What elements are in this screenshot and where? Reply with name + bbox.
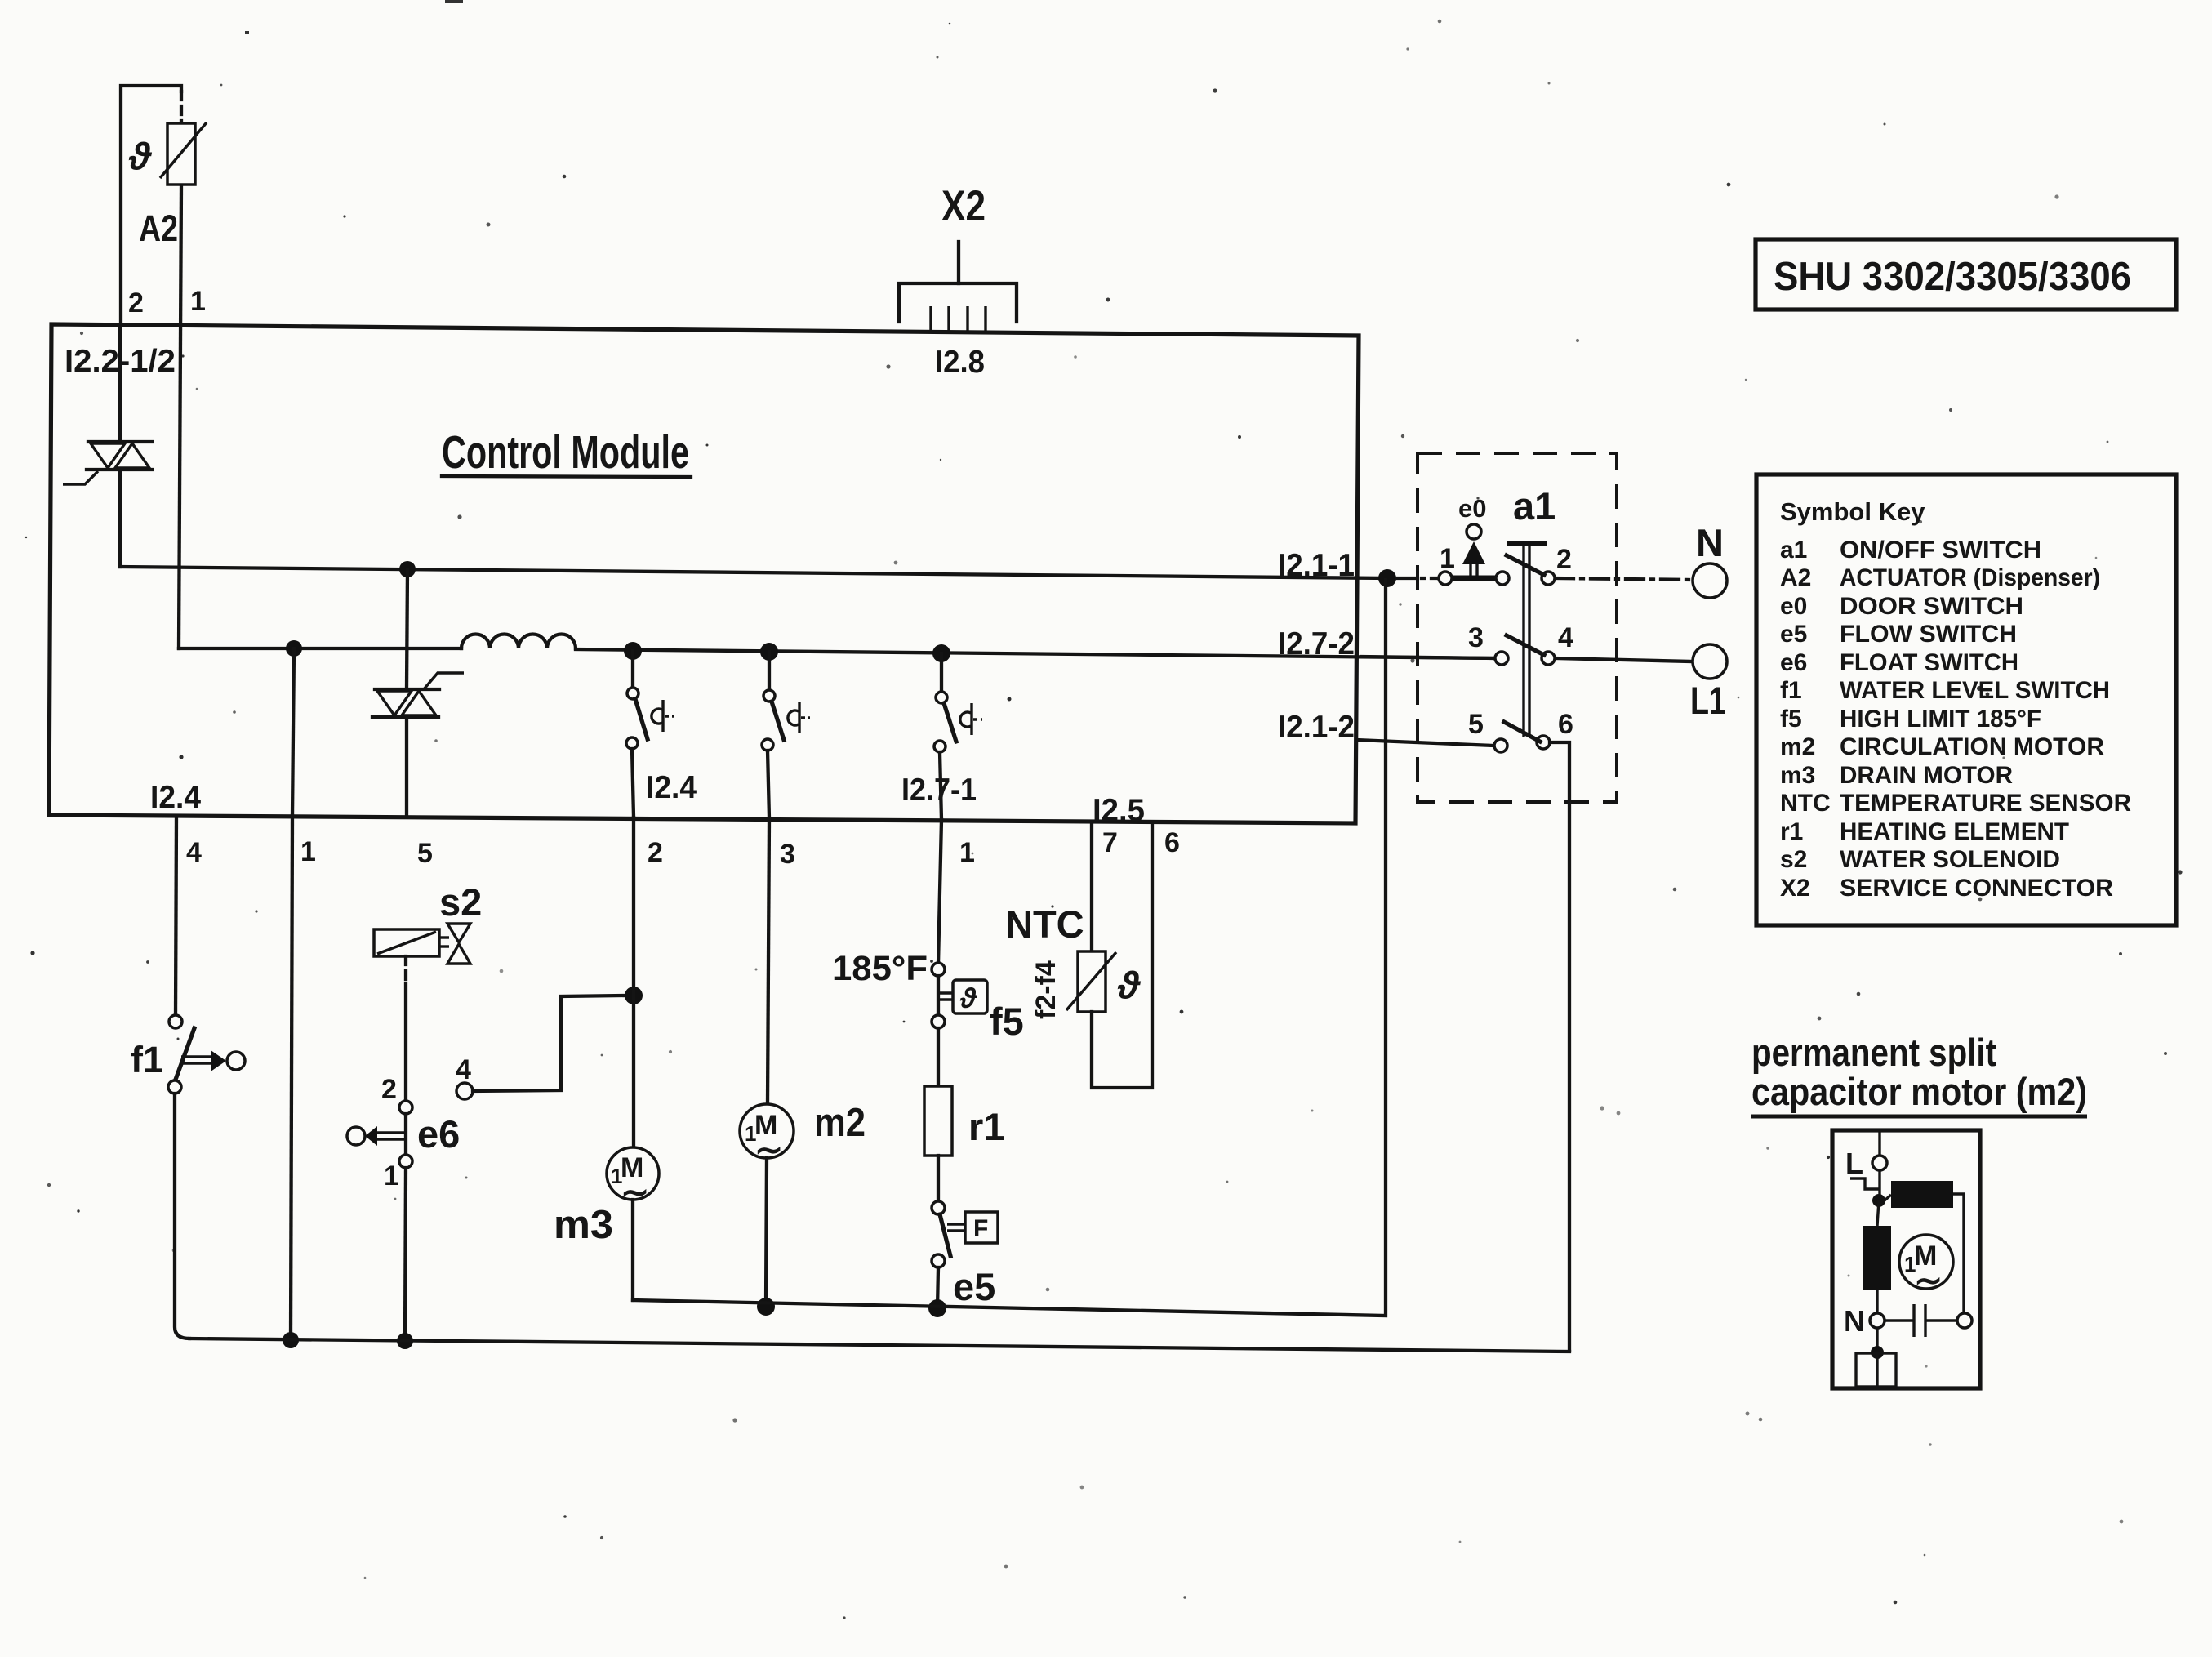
wire NTC loop: [1092, 823, 1152, 1088]
legend e0: [1780, 593, 2023, 620]
flow switch e5: [932, 1201, 998, 1267]
svg-text:e5: e5: [1780, 621, 1807, 648]
svg-text:ϑ: ϑ: [128, 135, 153, 177]
svg-text:I2.4: I2.4: [646, 770, 697, 805]
svg-text:2: 2: [128, 287, 144, 318]
float switch e6: [347, 1101, 412, 1168]
psc motor M: [1899, 1235, 1953, 1299]
svg-text:f1: f1: [131, 1039, 163, 1080]
svg-text:HIGH LIMIT 185°F: HIGH LIMIT 185°F: [1840, 706, 2041, 733]
svg-text:CIRCULATION MOTOR: CIRCULATION MOTOR: [1840, 733, 2104, 760]
svg-text:ON/OFF SWITCH: ON/OFF SWITCH: [1840, 537, 2041, 563]
svg-text:m3: m3: [554, 1203, 613, 1247]
psc N terminal: [1870, 1313, 1885, 1328]
svg-text:r1: r1: [968, 1105, 1004, 1148]
relay switch I2.7-1: [934, 653, 982, 820]
svg-text:ACTUATOR (Dispenser): ACTUATOR (Dispenser): [1840, 564, 2100, 591]
svg-text:X2: X2: [1780, 875, 1810, 902]
svg-text:FLOAT SWITCH: FLOAT SWITCH: [1840, 649, 2018, 676]
svg-text:e6: e6: [417, 1112, 460, 1156]
svg-text:e0: e0: [1458, 494, 1486, 523]
actuator A2 (dispenser) thermistor: [128, 122, 207, 185]
junction on I2.1-1 at triac2 branch: [399, 561, 416, 577]
wire pin2 to N dash-dot: [1556, 578, 1692, 580]
svg-text:L1: L1: [1690, 679, 1726, 722]
wire I2.1-1: [120, 567, 1387, 578]
svg-text:I2.8: I2.8: [935, 345, 985, 380]
symbol key box: [1756, 474, 2176, 925]
legend NTC: [1780, 790, 2131, 817]
a1 pole 5-6 contacts: [1494, 722, 1550, 752]
psc start winding to capacitor wire: [1953, 1194, 1964, 1313]
svg-text:a1: a1: [1780, 537, 1807, 563]
svg-text:3: 3: [780, 839, 795, 870]
legend e6: [1780, 649, 2018, 676]
svg-text:7: 7: [1102, 827, 1118, 858]
wire I2.7-2 right segment: [576, 649, 1495, 658]
on/off switch a1 dashed enclosure: [1418, 453, 1617, 802]
legend e5: [1780, 621, 2017, 648]
svg-text:WATER LEVEL SWITCH: WATER LEVEL SWITCH: [1840, 677, 2110, 704]
svg-text:A2: A2: [139, 207, 178, 249]
control module box: [49, 324, 1359, 823]
svg-text:∼: ∼: [754, 1130, 783, 1169]
junction m3 feed: [625, 987, 643, 1004]
psc motor title: [1751, 1031, 2087, 1116]
svg-text:1: 1: [190, 286, 206, 317]
wire I2.7-2 left segment: [179, 647, 461, 650]
psc motor box: [1832, 1130, 1980, 1388]
svg-text:2: 2: [381, 1074, 397, 1105]
psc junction: [1872, 1194, 1885, 1207]
svg-text:e6: e6: [1780, 649, 1807, 676]
drain motor m3: [607, 1147, 659, 1211]
wire junction to main winding: [1877, 1200, 1879, 1226]
wire A2 top loop: [121, 86, 181, 648]
junction e6/lower rail: [397, 1333, 413, 1349]
wire r1 to e5: [937, 1156, 940, 1201]
svg-text:1: 1: [300, 836, 316, 867]
wire m3 to upper rail: [631, 1200, 634, 1300]
svg-text:5: 5: [417, 838, 433, 869]
legend a1: [1780, 537, 2041, 563]
svg-text:WATER SOLENOID: WATER SOLENOID: [1840, 846, 2060, 873]
legend f5: [1780, 706, 2041, 733]
wire I2.7-1 drop to f5: [938, 820, 941, 964]
temperature sensor NTC: [1066, 951, 1142, 1012]
a1 pole 3-4 contacts: [1495, 635, 1555, 665]
legend r1: [1780, 818, 2069, 845]
svg-text:2: 2: [1556, 544, 1572, 575]
junction I2.1-1 to a1/N rail: [1378, 569, 1396, 587]
junction m2/upper rail: [757, 1298, 775, 1316]
svg-text:ϑ: ϑ: [959, 983, 977, 1014]
svg-text:f5: f5: [990, 1000, 1024, 1043]
svg-text:F: F: [973, 1215, 988, 1242]
svg-text:X2: X2: [941, 182, 986, 230]
relay switch m2: [762, 652, 810, 818]
svg-text:m3: m3: [1780, 762, 1815, 789]
svg-text:I2.7-1: I2.7-1: [901, 773, 977, 808]
triac 2 (solenoid driver): [372, 673, 464, 717]
pin 4 open contact: [456, 1083, 473, 1099]
legend s2: [1780, 846, 2060, 873]
wire e5 to upper rail: [937, 1267, 938, 1308]
svg-text:6: 6: [1558, 709, 1573, 740]
svg-text:SHU 3302/3305/3306: SHU 3302/3305/3306: [1774, 255, 2131, 299]
svg-text:f2-f4: f2-f4: [1030, 960, 1061, 1019]
svg-text:1: 1: [384, 1160, 399, 1192]
svg-text:e0: e0: [1780, 593, 1807, 620]
svg-text:r1: r1: [1780, 818, 1803, 845]
wire f5 to r1: [937, 1028, 940, 1086]
lower rail (line side): [189, 1339, 1569, 1352]
legend m3: [1780, 762, 2013, 789]
svg-text:1: 1: [1440, 543, 1455, 574]
wire triac to I2.1-1: [118, 470, 122, 567]
svg-text:f1: f1: [1780, 677, 1802, 704]
heating element r1: [924, 1086, 952, 1156]
wire I2.1-2 to pole 5: [1356, 740, 1494, 746]
svg-text:I2.7-2: I2.7-2: [1278, 626, 1355, 661]
svg-text:I2.1-2: I2.1-2: [1278, 710, 1355, 745]
a1 linkage T-bar: [1507, 544, 1547, 737]
svg-text:4: 4: [186, 837, 202, 868]
junction e5/upper rail: [928, 1299, 946, 1317]
svg-text:A2: A2: [1780, 564, 1811, 591]
junction I2.7-2 sw m2: [760, 643, 778, 661]
svg-text:f5: f5: [1780, 706, 1802, 733]
junction pin1/lower rail: [283, 1332, 299, 1348]
circulation motor m2: [740, 1104, 794, 1169]
psc L terminal: [1872, 1130, 1887, 1170]
svg-text:DRAIN MOTOR: DRAIN MOTOR: [1840, 762, 2013, 789]
svg-text:N: N: [1696, 521, 1724, 564]
inductor (interference coil): [461, 635, 576, 649]
svg-text:DOOR SWITCH: DOOR SWITCH: [1840, 593, 2023, 620]
label Control Module: [442, 426, 691, 479]
svg-text:m2: m2: [1780, 733, 1815, 760]
wire main winding to N: [1876, 1290, 1878, 1313]
high limit f5: [932, 963, 987, 1028]
svg-text:a1: a1: [1513, 484, 1556, 528]
upper rail (neutral return): [633, 580, 1386, 1316]
svg-text:N: N: [1844, 1304, 1865, 1338]
wire s2 to e6 (dashed then solid): [404, 956, 407, 983]
svg-text:3: 3: [1468, 622, 1484, 653]
svg-text:I2.5: I2.5: [1093, 793, 1145, 828]
svg-text:s2: s2: [439, 880, 482, 924]
svg-text:4: 4: [456, 1054, 471, 1085]
svg-text:L: L: [1845, 1147, 1863, 1180]
wire e6 to lower rail: [405, 1168, 406, 1341]
wire pin3 drop to m2: [768, 818, 769, 1104]
svg-text:s2: s2: [1780, 846, 1807, 873]
wire pin2 drop to m3: [632, 817, 635, 1147]
svg-text:e5: e5: [953, 1265, 995, 1308]
wire dash-dot into a1 pin1: [1396, 577, 1439, 580]
svg-text:TEMPERATURE SENSOR: TEMPERATURE SENSOR: [1840, 790, 2131, 817]
wire pin1 drop inside module: [292, 648, 294, 816]
svg-text:FLOW SWITCH: FLOW SWITCH: [1840, 621, 2017, 648]
junction I2.7-2 pin1 branch: [286, 640, 302, 657]
wire pin4-contact to m3 branch: [473, 996, 625, 1091]
wire pin2 into module down to triac: [118, 325, 122, 441]
svg-text:I2.4: I2.4: [150, 780, 201, 815]
svg-text:NTC: NTC: [1005, 902, 1084, 946]
wire I2.7-2 to pole 3: [1361, 657, 1495, 658]
svg-text:Control Module: Control Module: [442, 426, 689, 479]
svg-text:I2.1-1: I2.1-1: [1278, 548, 1355, 583]
psc capacitor: [1885, 1304, 1972, 1337]
svg-text:1: 1: [959, 837, 975, 868]
wire triac2 branch vertical: [407, 569, 407, 689]
legend f1: [1780, 677, 2110, 704]
wire pin4 drop to f1: [176, 816, 176, 1016]
wire f1 to lower rail: [175, 1094, 189, 1339]
svg-text:m2: m2: [814, 1101, 866, 1145]
terminal L1: [1693, 644, 1727, 679]
wire pole4 to L1: [1556, 658, 1692, 661]
wire triac2 to pin5: [405, 717, 408, 817]
junction I2.7-2 sw I2.7-1: [932, 644, 950, 662]
svg-text:SERVICE CONNECTOR: SERVICE CONNECTOR: [1840, 875, 2113, 902]
terminal N: [1693, 563, 1727, 598]
relay switch I2.4: [626, 651, 674, 817]
water level switch f1: [168, 1015, 245, 1094]
psc thermal switch: [1850, 1170, 1880, 1196]
psc start winding: [1885, 1181, 1953, 1208]
service connector X2: [899, 242, 1017, 332]
legend X2: [1780, 875, 2113, 902]
svg-text:4: 4: [1558, 622, 1573, 653]
wire pin7 drop: [1090, 822, 1093, 951]
svg-text:HEATING ELEMENT: HEATING ELEMENT: [1840, 818, 2069, 845]
triac (dispenser driver): [63, 442, 152, 484]
svg-text:6: 6: [1164, 827, 1180, 858]
wire m2 to upper rail: [766, 1158, 767, 1307]
junction I2.7-2 sw I2.4: [624, 642, 642, 660]
svg-text:185°F: 185°F: [832, 949, 928, 988]
svg-text:capacitor motor (m2): capacitor motor (m2): [1751, 1070, 2087, 1113]
a1 pole 1-2 contacts: [1439, 555, 1555, 585]
psc protector: [1856, 1328, 1896, 1387]
svg-text:ϑ: ϑ: [1117, 964, 1142, 1006]
svg-text:2: 2: [648, 837, 663, 868]
water solenoid s2: [374, 924, 470, 964]
title box SHU: [1756, 239, 2176, 310]
svg-text:Symbol Key: Symbol Key: [1780, 497, 1925, 526]
svg-text:permanent split: permanent split: [1751, 1031, 1996, 1074]
svg-text:5: 5: [1468, 709, 1484, 740]
wire pin1 drop to lower rail: [291, 816, 292, 1340]
psc main winding: [1863, 1226, 1891, 1290]
wire pole6 down right side: [1550, 742, 1569, 1350]
svg-text:∼: ∼: [1914, 1261, 1943, 1299]
svg-text:∼: ∼: [621, 1173, 649, 1211]
legend m2: [1780, 733, 2104, 760]
door switch e0 actuator: [1452, 524, 1497, 578]
legend A2: [1780, 564, 2100, 591]
svg-text:NTC: NTC: [1780, 790, 1831, 817]
